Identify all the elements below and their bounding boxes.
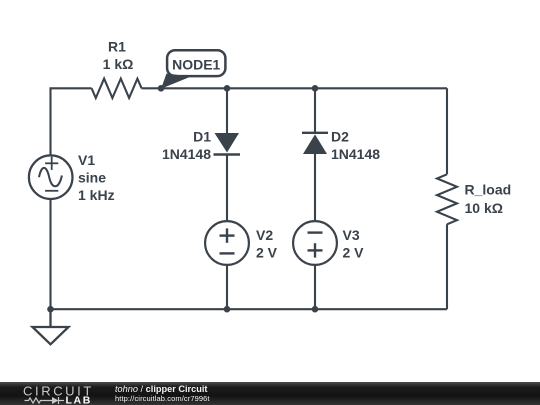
svg-text:NODE1: NODE1 xyxy=(172,57,220,73)
svg-text:1 kHz: 1 kHz xyxy=(78,187,115,203)
voltage source V1 xyxy=(29,155,73,199)
resistor R1 xyxy=(92,79,142,98)
svg-text:V3: V3 xyxy=(343,227,360,243)
resistor R_load xyxy=(437,174,457,224)
wire V2 bottom xyxy=(226,265,228,309)
node NODE1 junction xyxy=(158,85,165,92)
svg-text:V1: V1 xyxy=(78,152,95,168)
wire bottom rail xyxy=(51,308,448,310)
svg-text:D1: D1 xyxy=(193,129,211,145)
wire right side upper xyxy=(446,88,448,174)
svg-text:D2: D2 xyxy=(331,129,349,145)
wire top rail xyxy=(142,87,447,89)
wire right side lower xyxy=(446,224,448,309)
wire D2 to V3 xyxy=(314,154,316,221)
ground xyxy=(33,309,69,344)
svg-text:R1: R1 xyxy=(108,39,126,55)
voltage source V2 xyxy=(205,221,249,265)
diode D2 xyxy=(302,133,328,154)
wire V1 bottom xyxy=(49,199,51,309)
svg-text:LAB: LAB xyxy=(66,395,92,405)
svg-text:sine: sine xyxy=(78,170,106,186)
voltage source V3 xyxy=(293,221,337,265)
node V3 bottom junction xyxy=(312,306,319,313)
svg-text:2 V: 2 V xyxy=(343,245,365,261)
node D1 top junction xyxy=(224,85,231,92)
svg-text:1 kΩ: 1 kΩ xyxy=(103,56,134,72)
node ground junction xyxy=(47,306,54,313)
wire D1 branch top xyxy=(226,88,228,133)
wire D2 branch top xyxy=(314,88,316,133)
diode D1 xyxy=(214,133,241,155)
svg-text:V2: V2 xyxy=(256,227,273,243)
footer bar xyxy=(0,382,540,405)
CircuitLab logo xyxy=(0,382,100,405)
node V2 bottom junction xyxy=(224,306,231,313)
svg-text:1N4148: 1N4148 xyxy=(331,146,380,162)
node junction dots xyxy=(47,85,318,313)
svg-text:10 kΩ: 10 kΩ xyxy=(465,200,503,216)
wire D1 to V2 xyxy=(226,155,228,222)
node NODE1 flag xyxy=(161,50,225,89)
svg-text:2 V: 2 V xyxy=(256,245,278,261)
wire V3 bottom xyxy=(314,265,316,309)
wire top rail left lead xyxy=(51,88,92,155)
svg-text:R_load: R_load xyxy=(465,182,512,198)
svg-text:1N4148: 1N4148 xyxy=(162,146,211,162)
node D2 top junction xyxy=(312,85,319,92)
